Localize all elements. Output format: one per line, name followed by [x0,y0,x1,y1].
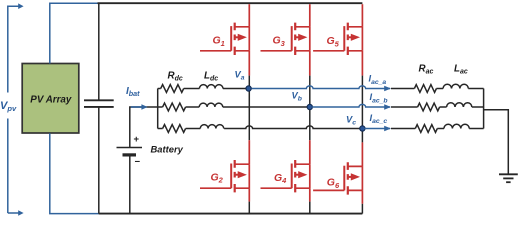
inductor Ldc phase a [184,88,200,90]
transistor G4 [261,160,310,192]
wire phase b to Rac [391,106,418,108]
svg-text:PV Array: PV Array [30,95,72,106]
wire leg b drain feed [309,4,311,27]
transistor G5 [313,23,362,55]
current arrow Iac_a [384,86,391,92]
wire battery positive to trunk [130,107,158,148]
inductor Ldc phase b [186,106,200,108]
node Vb [307,104,312,109]
node Vc [360,126,365,131]
wire leg a drain feed [248,4,250,27]
wire leg a to bottom rail [248,202,250,214]
current arrow Iac_b [384,104,391,110]
wire phase b to node (crosses leg a) [223,106,307,108]
wire phase a AC blue (hops over legs b,c) [252,86,391,89]
resistor Rac phase a [414,85,436,93]
node Va [246,86,251,91]
wire PV positive [50,3,98,63]
current arrow Iac_c [384,126,391,132]
wire leg a lower black [248,89,250,141]
resistor Rac phase b [418,103,440,111]
wire leg b lower source lead [309,188,311,201]
resistor Rdc phase c [158,128,163,130]
inductor Lac phase b [440,106,447,108]
wire phase a to node [223,88,246,90]
current arrow Ibat [131,104,148,110]
wire phase b to neutral bus [472,106,484,108]
wire leg c lower drain feed [361,142,363,166]
resistor Rac phase c [415,125,437,133]
wire leg c to bottom rail [361,204,363,214]
wire leg b upper black [309,76,311,107]
wire leg a lower drain feed [248,140,250,164]
wire PV negative [50,133,100,213]
capacitor DC link [84,3,114,213]
wire phase c to neutral bus [469,128,483,130]
PV array [22,64,79,134]
wire DC trunk [157,89,159,129]
wire phase c to Rac [391,128,415,130]
resistor Rdc phase a [158,88,161,90]
wire neutral bus [483,89,485,129]
wire leg c lower black [361,129,363,143]
inductor Lac phase a [436,88,443,90]
inductor Lac phase c [437,128,444,130]
wire top DC rail [98,2,363,4]
inductor Ldc phase c [186,128,201,130]
resistor Rdc phase b [158,106,163,108]
wire leg b lower drain feed [309,140,311,164]
transistor G2 [200,160,249,192]
wire phase c to node (hops over legs a and b) [224,126,360,129]
wire leg b to bottom rail [309,202,311,214]
ground [499,174,518,182]
wire leg a lower source lead [248,188,250,201]
wire leg a upper black [248,76,250,89]
transistor G6 [313,162,362,194]
svg-text:−: − [135,157,141,168]
wire leg c drain feed [361,4,363,27]
wire leg c source lead [361,51,363,76]
wire leg c upper black [361,76,363,129]
wire bottom DC rail [99,213,363,215]
wire leg a source lead [248,51,250,76]
wire phase b AC blue (hops over leg c) [312,104,390,107]
svg-text:+: + [134,134,140,145]
wire neutral to ground [484,110,509,175]
wire phase c AC blue [365,128,390,130]
wire leg b source lead [309,51,311,76]
transistor G1 [200,23,249,55]
transistor G3 [261,23,310,55]
wire leg c lower source lead [361,190,363,203]
wire phase a to Rac [391,88,414,90]
svg-text:Battery: Battery [151,144,184,155]
battery [117,148,143,214]
wire leg b lower black [309,107,311,140]
wire phase a to neutral bus [468,88,483,90]
Vpv measurement arrow [8,3,24,215]
